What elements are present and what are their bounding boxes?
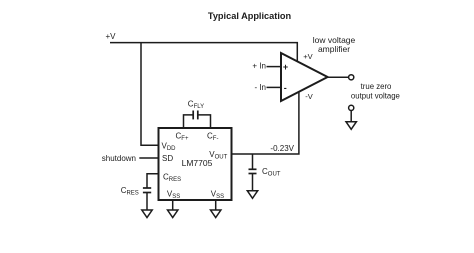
svg-text:-: - — [284, 83, 287, 93]
svg-text:+: + — [283, 62, 288, 72]
svg-text:+V: +V — [303, 52, 312, 61]
svg-text:+V: +V — [106, 32, 117, 41]
svg-text:-0.23V: -0.23V — [270, 144, 294, 153]
svg-text:-V: -V — [305, 92, 313, 101]
svg-text:SD: SD — [162, 154, 173, 163]
svg-text:LM7705: LM7705 — [182, 158, 213, 168]
svg-text:+ In: + In — [252, 62, 266, 71]
svg-text:output voltage: output voltage — [351, 91, 400, 100]
svg-text:Typical Application: Typical Application — [208, 11, 292, 21]
svg-text:- In: - In — [254, 83, 266, 92]
svg-text:true zero: true zero — [361, 82, 392, 91]
svg-text:shutdown: shutdown — [102, 154, 136, 163]
svg-text:amplifier: amplifier — [318, 44, 350, 54]
